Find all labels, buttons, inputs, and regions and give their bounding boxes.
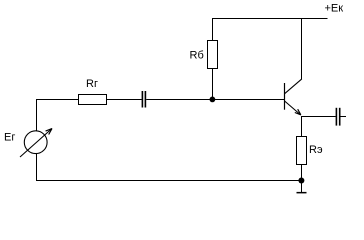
resistor Rb [208,41,218,69]
svg-text:Rб: Rб [190,50,204,62]
wire: output stub [341,116,347,118]
transistor Q1 emitter arrow head [295,109,301,115]
wire: emitter down to Re [301,116,303,137]
source Eg arrow shaft [20,129,52,158]
ground stem [301,181,303,193]
wire: C1 to base [146,99,284,101]
wire: Rb down to base node [212,69,214,100]
wire: left branch down to source [36,99,38,131]
node junction at bottom rail [298,178,304,184]
capacitor C2 plates [336,108,338,126]
transistor Q1 collector wire [301,18,303,79]
transistor Q1 emitter diagonal [285,101,301,115]
svg-text:Ег: Ег [4,132,15,144]
svg-text:Rэ: Rэ [309,144,323,156]
node junction at base wire [210,97,216,103]
resistor Rg [79,95,107,105]
svg-text:Rг: Rг [86,78,98,90]
capacitor C1 plates [142,91,144,108]
source Eg circle [24,131,47,154]
wire: Re to bottom node [301,165,303,181]
wire: source top to Rg [36,99,79,101]
wire: Rg to capacitor C1 [107,99,142,101]
wire: top supply rail [212,18,328,20]
wire: source bottom to bottom rail [36,153,38,181]
wire: bottom rail [36,180,302,182]
wire: top rail down to Rb [212,18,214,41]
source Eg arrow head [46,129,52,135]
ground bar [297,192,307,194]
resistor Re [297,137,307,165]
svg-text:+Ек: +Ек [325,3,344,15]
wire: emitter to capacitor C2 [301,116,336,118]
transistor Q1 collector diagonal [285,79,302,94]
transistor Q1 base bar [284,83,286,110]
